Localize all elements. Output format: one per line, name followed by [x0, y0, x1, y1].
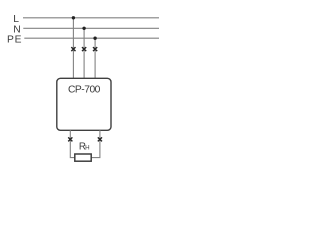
resistor RH body	[75, 154, 91, 161]
wire N line	[23, 27, 159, 29]
wire right output stub	[91, 130, 100, 157]
junction dot on PE	[93, 37, 96, 40]
wire L drop	[72, 18, 74, 79]
plug-in terminal arrows L drop	[71, 47, 75, 51]
junction dot on N	[82, 27, 85, 30]
wire L line	[23, 17, 159, 19]
plug-in terminal arrows left output	[68, 137, 72, 141]
plug-in terminal arrows N drop	[82, 47, 86, 51]
wire PE drop	[94, 38, 96, 78]
plug-in terminal arrows PE drop	[93, 47, 97, 51]
svg-text:CP-700: CP-700	[68, 85, 101, 96]
svg-text:PE: PE	[7, 34, 22, 45]
relay box CP-700	[57, 78, 111, 130]
wire N drop	[83, 28, 85, 78]
plug-in terminal arrows right output	[98, 137, 102, 141]
wire left output stub	[70, 130, 74, 157]
junction dot on L	[72, 16, 75, 19]
wire PE line	[24, 37, 159, 39]
